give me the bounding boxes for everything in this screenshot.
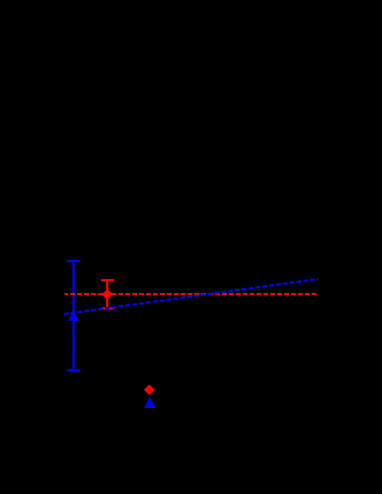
red diamond data marker xyxy=(101,290,113,300)
blue triangle data marker xyxy=(68,311,79,321)
red errorbar bottom cap xyxy=(101,307,114,309)
blue dashed fit line xyxy=(64,279,318,314)
red errorbar vertical line xyxy=(106,280,108,308)
legend blue triangle marker xyxy=(144,397,155,408)
red errorbar top cap xyxy=(101,279,114,281)
red dashed horizontal fit line xyxy=(65,293,319,295)
legend red diamond marker xyxy=(144,385,155,396)
blue errorbar top cap xyxy=(67,260,80,262)
blue errorbar bottom cap xyxy=(67,369,80,371)
blue errorbar vertical line xyxy=(72,261,74,371)
